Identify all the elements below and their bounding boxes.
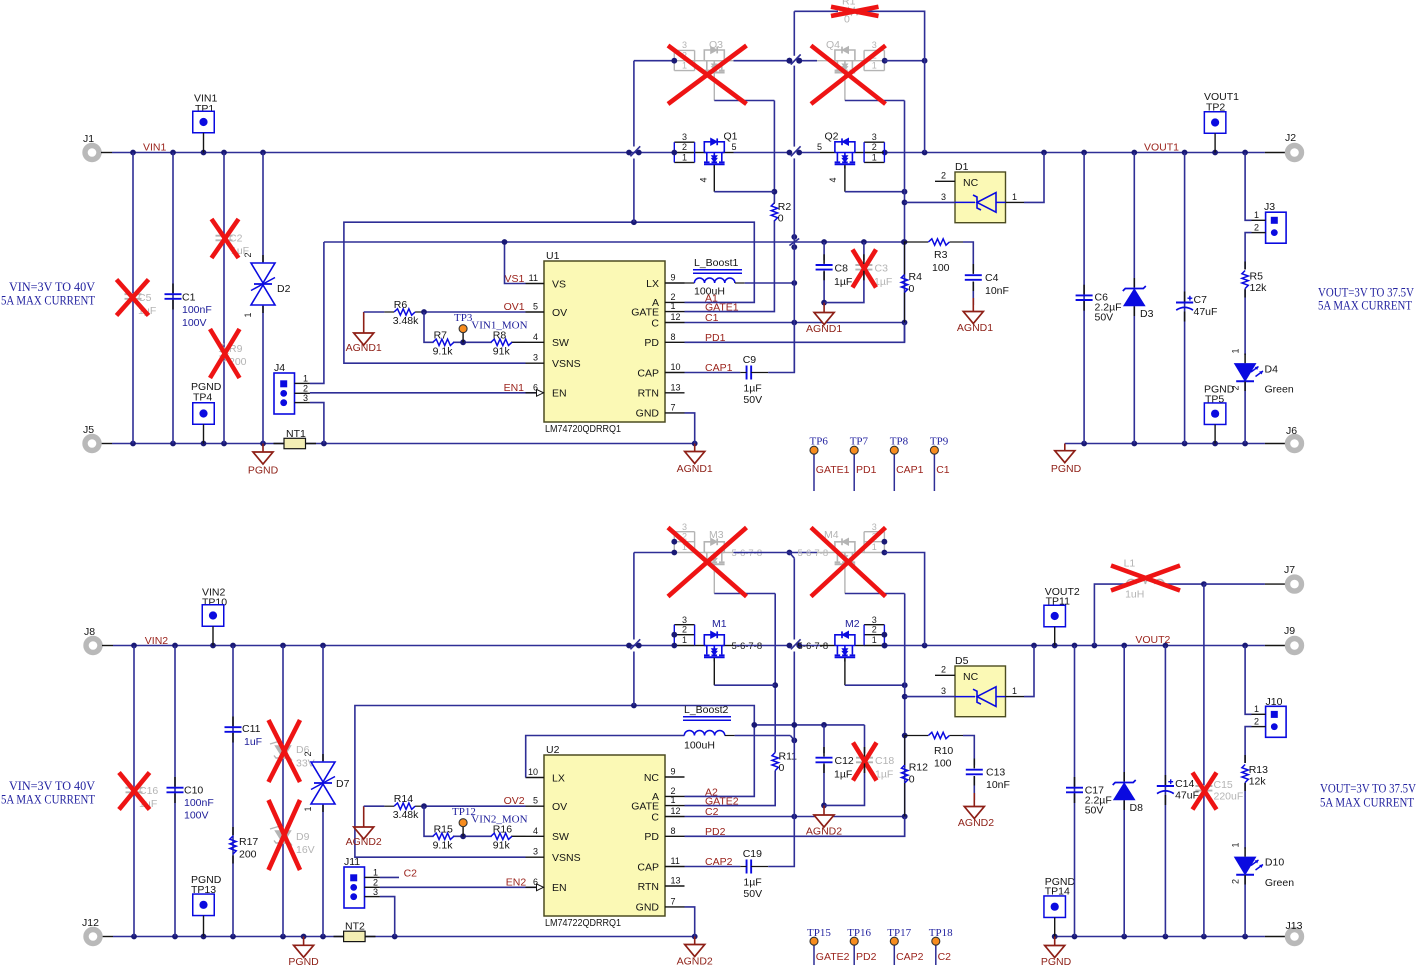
svg-text:C7: C7 [1194,294,1208,306]
D1 internal diode [977,193,996,213]
svg-text:EN2: EN2 [506,877,527,889]
transistor Q1 [674,141,694,143]
wire EN2 [380,886,536,888]
svg-text:1: 1 [671,795,676,805]
wire M3 gate [713,565,715,593]
ground AGND1 under U1 [694,444,696,452]
capacitor C18 (DNP) branch [864,725,866,753]
connector J13 [1288,930,1302,944]
inductor L1 (DNP) bypass [1094,584,1126,645]
svg-text:1: 1 [682,152,687,162]
svg-text:50V: 50V [1085,805,1104,817]
svg-text:1µF: 1µF [834,769,852,781]
red X over D6 [269,720,301,782]
red X over C3 [853,250,877,288]
zener diode D3 [1133,153,1135,444]
svg-text:D7: D7 [336,778,350,790]
wire A2/VSNS loop bottom [355,706,754,858]
svg-text:CAP1: CAP1 [896,464,924,476]
svg-text:100V: 100V [184,810,209,822]
svg-text:9: 9 [671,273,676,283]
EN2 input arrow [537,884,544,891]
wire input cap columns [132,153,134,444]
wire VOUT1 rail [884,152,1265,154]
svg-text:C11: C11 [242,723,261,735]
svg-text:C19: C19 [743,848,762,860]
svg-text:PGND: PGND [248,465,279,477]
jump Q row at mid vertical [787,58,793,64]
svg-text:2: 2 [303,751,313,756]
wire VOUT2 rail [884,645,1265,647]
svg-text:J2: J2 [1285,132,1296,144]
wire GND pin to AGND2 rail [685,907,695,937]
svg-text:47uF: 47uF [1175,790,1199,802]
junction dots PGND rail2 [131,934,137,940]
wire PD2 row [685,817,905,837]
red X over C18 [853,743,877,781]
diagonal join L_Boost2 to mid vertical [790,736,794,741]
svg-text:PD1: PD1 [856,464,877,476]
resistor R16 [491,833,512,839]
resistor R4 [901,275,907,293]
svg-text:1: 1 [671,301,676,311]
svg-text:PD2: PD2 [856,951,877,963]
svg-text:C4: C4 [985,272,999,284]
svg-text:5A MAX CURRENT: 5A MAX CURRENT [1320,796,1414,810]
svg-text:1: 1 [872,635,877,645]
wire J3 pin1 to rail [1245,153,1251,221]
red X over M4 [811,528,886,597]
power symbol PGND left [262,444,264,453]
ground AGND1 at C8 [823,303,825,313]
capacitor C9 [746,366,748,380]
svg-text:GND: GND [636,408,660,420]
mid vertical wire bottom x=794 [793,558,795,639]
svg-text:3: 3 [872,615,877,625]
wire C9 to C row [768,323,794,373]
jump at VIN2 rail x=634 [626,643,632,649]
svg-text:4: 4 [533,332,538,342]
red X over C2 [212,219,239,258]
jump VS line over mid vertical [791,234,797,240]
wire CAP row [685,372,741,374]
svg-text:1: 1 [1012,686,1017,696]
svg-text:TP4: TP4 [193,392,212,404]
svg-text:R12: R12 [909,762,928,774]
ground AGND2 at C13 [973,793,975,807]
svg-text:R1: R1 [842,0,856,8]
svg-text:AGND1: AGND1 [677,463,713,475]
svg-text:1: 1 [1231,842,1241,847]
svg-text:CAP1: CAP1 [705,362,733,374]
svg-text:8: 8 [671,332,676,342]
svg-text:5A MAX CURRENT: 5A MAX CURRENT [1318,299,1412,313]
svg-text:1: 1 [682,61,687,71]
svg-text:1uH: 1uH [1125,589,1144,601]
svg-text:AGND2: AGND2 [677,956,713,966]
resistor R8 [491,339,512,345]
svg-text:2: 2 [1254,222,1259,232]
svg-text:C9: C9 [743,354,757,366]
svg-text:TP8: TP8 [890,436,909,448]
wire PGND/AGND rail bottom left [101,443,112,445]
svg-text:2: 2 [303,383,308,393]
svg-text:D9: D9 [296,831,310,843]
wire OV row bottom [364,805,385,807]
svg-text:NC: NC [963,177,979,189]
wire VIN2 rail [102,645,113,647]
svg-text:2: 2 [872,142,877,152]
svg-text:3: 3 [941,686,946,696]
svg-text:R3: R3 [934,249,948,261]
connector J5 [85,437,99,451]
svg-text:5: 5 [817,142,822,152]
svg-text:AGND2: AGND2 [806,826,842,838]
svg-text:OV: OV [552,307,567,319]
svg-text:OV1: OV1 [504,301,525,313]
wire M4 row to rail [884,553,924,646]
transistor Q4 (DNP) [800,60,817,62]
svg-text:TP15: TP15 [807,927,831,939]
svg-text:PD1: PD1 [705,332,726,344]
svg-text:7: 7 [671,896,676,906]
svg-text:1: 1 [872,542,877,552]
wire PGND/AGND2 rail bottom left2 [102,936,113,938]
svg-text:1: 1 [243,312,253,317]
svg-text:12: 12 [671,312,681,322]
svg-text:1: 1 [1012,192,1017,202]
svg-text:J13: J13 [1286,920,1303,932]
svg-text:C2: C2 [404,867,418,879]
svg-text:50V: 50V [743,888,762,900]
resistor R15 [433,833,454,839]
svg-text:5A MAX CURRENT: 5A MAX CURRENT [1,294,95,308]
zener diode D8 [1123,646,1125,937]
wire C15 column [1203,584,1205,936]
svg-text:2: 2 [682,142,687,152]
capacitor C2 (DNP) [216,235,233,237]
svg-text:3: 3 [941,192,946,202]
svg-text:3: 3 [682,615,687,625]
svg-text:J7: J7 [1284,564,1295,576]
zener diode D9 (DNP) [276,831,291,843]
D5 internal diode [977,687,996,707]
svg-text:10nF: 10nF [986,779,1010,791]
svg-text:LX: LX [552,772,565,784]
svg-text:VIN2_MON: VIN2_MON [471,814,527,826]
svg-text:47uF: 47uF [1194,306,1218,318]
capacitor C6 [1083,153,1085,444]
red X over R1 [831,7,879,16]
svg-text:J6: J6 [1286,425,1297,437]
wire M2 gate [844,658,846,685]
svg-text:5: 5 [732,142,737,152]
svg-text:1: 1 [1254,210,1259,220]
ground AGND2 under U2 [694,937,696,945]
svg-text:AGND2: AGND2 [958,817,994,829]
svg-text:J1: J1 [83,133,94,145]
wire gate columns to x904 bottom [904,594,906,837]
svg-text:C10: C10 [184,785,203,797]
svg-text:5-6-7-8: 5-6-7-8 [732,548,763,559]
jump at VIN1 rail x=634 [626,150,632,156]
wire M4 gate [844,565,846,593]
mid vertical wire x=794 [793,11,795,56]
ground AGND1 at C4 [972,298,974,312]
svg-text:1: 1 [872,152,877,162]
wire Q1 gate [713,165,715,192]
red X over M3 [668,528,747,597]
wire J4 pin3 to AGND rail [310,403,324,444]
red X over R9 [210,329,240,378]
svg-text:U1: U1 [546,250,560,262]
svg-text:C13: C13 [986,767,1005,779]
svg-text:5: 5 [533,796,538,806]
red X over Q3 [668,46,747,105]
svg-text:VIN1: VIN1 [143,142,167,154]
svg-text:0: 0 [778,213,784,225]
svg-text:D5: D5 [955,655,969,667]
TVS diode D2 [251,263,275,283]
wire J4 pin1 to VS line [310,242,324,383]
svg-text:10nF: 10nF [985,285,1009,297]
svg-text:AGND1: AGND1 [346,342,382,354]
wire PD row [685,323,905,343]
wire PGND rail bottom right2 [1055,936,1265,938]
wire M1 gate [713,658,715,685]
svg-text:11: 11 [529,273,538,283]
svg-text:R6: R6 [394,299,408,311]
svg-text:M2: M2 [845,618,860,630]
capacitor C7 [1184,153,1186,444]
capacitor C15 (DNP) [1195,785,1212,787]
junction dots PGND rail [130,441,136,447]
wire VS1 line [324,241,904,243]
svg-text:3: 3 [872,522,877,532]
junction M row to mid vertical [787,550,793,556]
svg-text:AGND1: AGND1 [957,322,993,334]
junction dots VOUT1 rail [882,150,888,156]
svg-text:11: 11 [671,856,680,866]
capacitor C11 [225,726,242,728]
svg-text:GATE1: GATE1 [816,464,850,476]
svg-text:L_Boost1: L_Boost1 [694,257,739,269]
junction dots VS line [821,239,827,245]
svg-text:GATE2: GATE2 [816,951,850,963]
resistor R9 (DNP) [221,344,227,362]
svg-text:3.48k: 3.48k [393,315,419,327]
svg-text:R17: R17 [239,836,258,848]
capacitor C5 (DNP) [125,293,142,295]
svg-text:5-6-7-8: 5-6-7-8 [798,548,829,559]
svg-text:Q1: Q1 [724,131,738,143]
svg-text:0: 0 [779,762,785,774]
svg-text:J3: J3 [1264,201,1275,213]
capacitor C19 [746,860,748,874]
svg-text:C1: C1 [705,312,719,324]
svg-text:3.48k: 3.48k [393,809,419,821]
svg-text:VOUT1: VOUT1 [1144,142,1179,154]
wire CAP2 row [685,866,741,868]
svg-text:91k: 91k [493,346,511,358]
ground AGND1 at R6 [363,312,365,333]
svg-text:RTN: RTN [638,388,659,400]
svg-text:TP6: TP6 [810,436,829,448]
svg-text:91k: 91k [493,840,511,852]
svg-text:4: 4 [533,826,538,836]
svg-text:5: 5 [533,302,538,312]
wire C19 to C2 row [768,817,794,867]
svg-text:12k: 12k [1249,776,1267,788]
svg-text:LX: LX [646,278,659,290]
capacitor C1 [165,293,182,295]
wire M3 row vertical left [633,553,635,640]
resistor R7 [433,339,454,345]
wire R10 C13 branch [905,735,929,737]
svg-text:1uF: 1uF [244,736,262,748]
red X over C5 [117,280,149,316]
svg-text:Q2: Q2 [825,131,839,143]
svg-text:R14: R14 [394,793,413,805]
resistor R14 [394,803,415,809]
svg-text:PGND: PGND [1051,463,1082,475]
svg-text:VIN=3V TO 40V: VIN=3V TO 40V [9,280,96,294]
resistor R6 [394,309,415,315]
TVS diode D7 [311,762,335,782]
capacitor C13 [966,769,983,771]
svg-text:C5: C5 [138,292,152,304]
svg-text:D2: D2 [277,283,291,295]
svg-text:EN: EN [552,882,567,894]
svg-text:2: 2 [941,665,946,675]
svg-text:Green: Green [1265,877,1294,889]
wire J11 pin3 to AGND rail [380,897,395,937]
svg-text:J12: J12 [82,917,99,929]
svg-text:220uF: 220uF [1214,791,1244,803]
svg-text:D3: D3 [1140,308,1154,320]
svg-text:AGND2: AGND2 [346,836,382,848]
resistor R12 [902,765,908,783]
svg-text:1µF: 1µF [743,877,761,889]
svg-text:8: 8 [671,826,676,836]
jump mid vertical at VIN2 rail [787,643,793,649]
transistor M1 [674,624,694,626]
transistor Q3 (DNP) [634,60,674,62]
svg-text:R7: R7 [434,329,448,341]
EN input arrow [537,389,544,396]
black component lead accents [172,284,174,294]
red X over D9 [269,800,301,870]
svg-text:50V: 50V [743,394,762,406]
svg-text:1: 1 [872,61,877,71]
wire GATE2 row [685,771,776,806]
svg-text:10: 10 [671,362,681,372]
svg-text:EN: EN [552,388,567,400]
wire C row [685,322,905,324]
svg-text:12: 12 [671,806,681,816]
svg-text:NC: NC [644,772,660,784]
svg-text:OV2: OV2 [504,795,525,807]
transistor M4 (DNP) [789,552,817,554]
connector J8 [86,639,100,653]
svg-text:3: 3 [682,132,687,142]
wire J11 pin1 stub [380,876,399,878]
capacitor C12 branch [823,725,825,753]
svg-text:C: C [651,317,659,329]
svg-text:2: 2 [941,171,946,181]
svg-text:5-6-7-8: 5-6-7-8 [798,641,829,652]
svg-text:D8: D8 [1130,802,1144,814]
svg-text:R10: R10 [934,745,953,757]
wire VIN1 rail [101,152,112,154]
svg-text:2: 2 [682,625,687,635]
svg-text:C12: C12 [835,755,854,767]
svg-text:1: 1 [682,635,687,645]
wire C2 row [685,816,905,818]
svg-text:C2: C2 [705,806,719,818]
svg-text:C8: C8 [835,263,849,275]
svg-text:C: C [651,811,659,823]
svg-text:PGND: PGND [288,956,319,965]
resistor R1 (DNP) bypass loop [794,10,838,12]
svg-text:13: 13 [671,382,681,392]
svg-text:1: 1 [303,806,313,811]
svg-text:R4: R4 [909,271,923,283]
wire Q3 row vertical left [633,61,635,147]
svg-text:C16: C16 [139,785,158,797]
svg-text:SW: SW [552,337,569,349]
svg-text:100: 100 [932,262,950,274]
wire R2 top to gates [773,101,775,203]
svg-text:C15: C15 [1214,779,1233,791]
svg-text:CAP2: CAP2 [705,856,733,868]
resistor R17 [230,836,236,854]
svg-text:1: 1 [303,374,308,384]
svg-text:J9: J9 [1284,625,1295,637]
wire J10 pin2 to R13 [1245,727,1251,763]
svg-text:1µF: 1µF [834,276,852,288]
svg-text:VOUT=3V TO 37.5V: VOUT=3V TO 37.5V [1318,286,1415,300]
svg-text:J5: J5 [83,424,94,436]
svg-text:TP3: TP3 [454,312,473,324]
power symbol PGND left2 [303,937,305,946]
jump mid vertical at VIN rail [787,150,793,156]
svg-text:2: 2 [872,625,877,635]
svg-text:3: 3 [373,887,378,897]
svg-text:3: 3 [303,393,308,403]
svg-text:VS: VS [552,278,566,290]
svg-text:1: 1 [373,868,378,878]
jump mid vertical at Q row [787,58,793,64]
svg-text:3: 3 [872,132,877,142]
svg-text:D1: D1 [955,161,969,173]
svg-text:R5: R5 [1250,271,1264,283]
svg-text:13: 13 [671,876,681,886]
connector J1 [85,146,99,160]
zener diode D6 (DNP) [276,746,291,758]
wire Q4 gate [844,73,846,100]
svg-text:100uH: 100uH [684,740,715,752]
svg-text:CAP: CAP [637,861,659,873]
svg-text:2: 2 [1231,879,1241,884]
wire R3 C4 branch [904,241,928,243]
capacitor C14 [1164,646,1166,937]
svg-text:2: 2 [243,252,253,257]
svg-text:10: 10 [528,767,538,777]
svg-text:1: 1 [1231,348,1241,353]
connector J9 [1288,639,1302,653]
svg-text:LM74722QDRRQ1: LM74722QDRRQ1 [545,917,621,929]
